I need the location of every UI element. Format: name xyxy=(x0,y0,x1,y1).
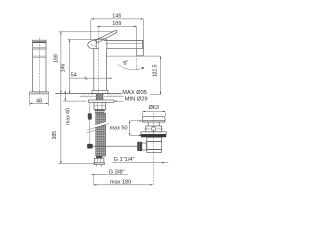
dimension 48 xyxy=(30,94,49,105)
svg-text:102.5: 102.5 xyxy=(152,64,158,77)
drain side port xyxy=(137,142,147,151)
flexible hose upper xyxy=(96,113,106,124)
label G 1 1/4 xyxy=(113,157,169,163)
washer xyxy=(89,100,115,102)
spout xyxy=(104,41,144,56)
dimension 102.5 xyxy=(107,56,162,94)
svg-text:max 40: max 40 xyxy=(65,108,71,125)
dimension max 40 xyxy=(63,91,87,125)
side view body xyxy=(33,40,46,92)
dimension 109 xyxy=(97,21,136,48)
dimension diameter 63 xyxy=(143,105,166,116)
hose break lines xyxy=(87,123,110,132)
svg-text:54: 54 xyxy=(71,73,77,79)
8 degree arc xyxy=(118,59,145,70)
side view centerline xyxy=(38,38,40,95)
svg-text:G 1"1/4": G 1"1/4" xyxy=(114,157,135,163)
spout aerator tip xyxy=(137,48,144,55)
dimension 54 xyxy=(69,73,112,81)
faucet column xyxy=(94,49,107,91)
deck top line xyxy=(55,93,121,95)
flexible hose lower xyxy=(96,125,106,156)
svg-text:169: 169 xyxy=(54,54,60,63)
threaded shank xyxy=(96,94,103,101)
outlet centerline xyxy=(136,48,138,69)
front view body centerline xyxy=(97,27,99,94)
drain upper body with pivot xyxy=(144,126,163,132)
drain stem xyxy=(148,122,159,126)
side view base plate xyxy=(30,92,49,94)
svg-text:48: 48 xyxy=(36,98,42,104)
drain lower body xyxy=(147,137,162,141)
svg-text:MIN Ø29: MIN Ø29 xyxy=(125,97,148,103)
column base plate xyxy=(92,90,108,93)
cartridge housing xyxy=(96,39,107,49)
drain centerline xyxy=(153,113,155,185)
dimension 145 xyxy=(91,13,144,40)
drain cap xyxy=(142,116,165,122)
lever handle xyxy=(95,30,117,42)
drain flange xyxy=(141,132,166,138)
label G 3/8 xyxy=(92,170,129,176)
svg-text:MAX Ø35: MAX Ø35 xyxy=(122,90,147,96)
svg-text:Ø63: Ø63 xyxy=(149,105,159,111)
dimension max 180 xyxy=(94,176,153,185)
hose end fitting xyxy=(94,156,105,164)
drain tail xyxy=(147,142,162,153)
dimension 169 xyxy=(54,32,114,94)
rod clamp xyxy=(87,144,92,149)
mounting nut xyxy=(94,102,106,109)
pop-up rod horizontal xyxy=(89,145,138,147)
handle knuckle xyxy=(88,40,99,49)
svg-text:146: 146 xyxy=(61,64,67,73)
svg-text:max 50: max 50 xyxy=(110,126,128,132)
dimension 146 xyxy=(61,39,103,93)
svg-text:145: 145 xyxy=(112,13,121,19)
deck bottom line xyxy=(80,96,124,98)
pop-up rod vertical xyxy=(89,102,91,146)
svg-text:385: 385 xyxy=(52,131,58,140)
svg-text:109: 109 xyxy=(112,21,121,27)
dimension 385 xyxy=(52,93,95,163)
deck hatching xyxy=(81,94,121,97)
hose crimp fittings xyxy=(95,110,105,114)
svg-text:max 180: max 180 xyxy=(110,179,131,185)
dimension max 50 xyxy=(110,120,142,136)
fitting extension ticks xyxy=(96,164,101,167)
